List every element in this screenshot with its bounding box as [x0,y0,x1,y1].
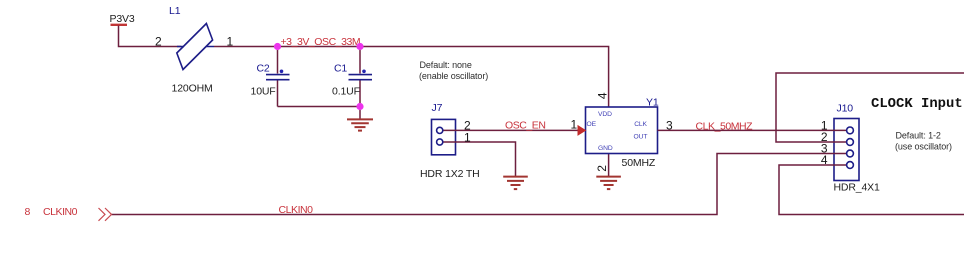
svg-text:CLOCK Input: CLOCK Input [871,96,963,112]
svg-text:CLKIN0: CLKIN0 [43,206,78,218]
svg-text:4: 4 [821,153,828,167]
svg-text:C1: C1 [334,62,347,74]
svg-text:VDD: VDD [598,111,612,118]
svg-text:Default: 1-2: Default: 1-2 [896,131,941,141]
J10 pin circles [847,127,854,134]
svg-text:0.1UF: 0.1UF [332,86,360,98]
connector J10 body [834,119,859,181]
junction at C2 top [274,43,281,50]
ground below C1 [347,119,373,130]
ground below Y1 [596,177,621,190]
svg-text:J7: J7 [432,102,443,114]
wire J7 pin2 to Y1 OE [443,129,579,131]
wire C2 top [277,47,279,74]
svg-text:2: 2 [155,34,162,48]
svg-text:J10: J10 [837,103,854,115]
wire bead to Y1 VDD rail [214,47,609,108]
svg-text:120OHM: 120OHM [172,82,213,94]
wire J10 pin2 up and off right [776,73,964,142]
wire C1 bottom to ground [359,81,361,120]
svg-text:(use oscillator): (use oscillator) [895,142,952,152]
svg-text:2: 2 [595,165,609,172]
svg-text:Y1: Y1 [646,97,659,109]
wire Y1 CLK to J10 pin1 [658,129,847,131]
svg-text:L1: L1 [169,5,181,17]
svg-text:CLK: CLK [634,121,647,128]
svg-text:P3V3: P3V3 [110,13,135,25]
Y1 input arrow at OE [578,125,587,136]
svg-text:8: 8 [25,206,31,218]
svg-text:Default: none: Default: none [420,60,472,70]
wire J10 pin4 down and off right [779,165,964,215]
svg-text:1: 1 [464,131,471,145]
svg-text:HDR_4X1: HDR_4X1 [834,181,881,193]
svg-text:C2: C2 [257,62,270,74]
power symbol P3V3 [111,24,128,26]
svg-text:(enable oscillator): (enable oscillator) [419,71,488,81]
wire bottom rail C2-C1 [278,106,361,108]
wire C2 bottom [277,81,279,107]
svg-text:OSC_EN: OSC_EN [505,120,545,132]
junction at C1 top [356,43,363,50]
svg-text:OUT: OUT [634,133,648,140]
capacitor C1 [349,70,373,80]
wire J7 pin1 to ground [443,142,516,176]
connector J7 body [432,119,456,154]
svg-text:GND: GND [598,145,613,152]
off-page connector chevron CLKIN0 [99,208,112,221]
svg-text:CLKIN0: CLKIN0 [279,204,314,216]
svg-text:HDR 1X2 TH: HDR 1X2 TH [420,168,480,180]
J7 pin circles [437,127,443,133]
svg-text:1: 1 [227,34,234,48]
svg-text:50MHZ: 50MHZ [622,157,656,169]
junction at C1 bottom [356,103,363,110]
svg-text:+3_3V_OSC_33M: +3_3V_OSC_33M [281,36,361,48]
ground below J7 pin1 [503,177,528,190]
capacitor C2 [266,70,290,80]
svg-text:OE: OE [587,121,597,128]
oscillator U Y1 body [586,107,658,154]
wire P3V3 down and right to bead [119,26,182,47]
svg-text:1: 1 [571,118,578,132]
wire Y1 GND to ground [608,154,610,177]
wire bead lead stubs (navy) [177,46,214,48]
wire J10 pin3 to CLKIN0 [112,154,847,215]
wire C1 top [359,47,361,74]
svg-text:10UF: 10UF [251,85,276,97]
svg-text:4: 4 [596,92,610,99]
inductor L1 ferrite bead body [177,24,213,70]
